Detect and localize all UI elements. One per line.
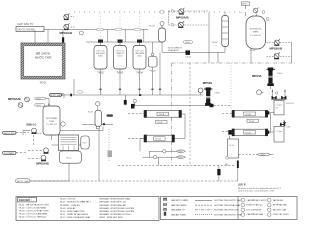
- svg-text:CL-5µ: CL-5µ: [229, 145, 235, 147]
- svg-text:MP07 : BƠM HÚT BÙN: MP07 : BƠM HÚT BÙN: [100, 216, 123, 219]
- svg-text:V = 300 LÍT: V = 300 LÍT: [46, 123, 58, 126]
- svg-text:TK-03 : CỘT LỌC HOẠT TÍNH: TK-03 : CỘT LỌC HOẠT TÍNH: [19, 210, 49, 213]
- svg-text:NƯỚC THẢI: NƯỚC THẢI: [17, 180, 29, 183]
- svg-text:MP03A/B: MP03A/B: [270, 46, 283, 50]
- svg-text:MP04S: MP04S: [203, 81, 213, 85]
- svg-text:NƯỚC SẠCH: NƯỚC SẠCH: [51, 94, 63, 97]
- svg-text:ĐƯỜNG ỐNG NƯỚC SẠCH: ĐƯỜNG ỐNG NƯỚC SẠCH: [215, 199, 244, 202]
- svg-text:TK-01: TK-01: [39, 81, 47, 85]
- svg-text:RO-A: RO-A: [246, 113, 252, 116]
- svg-text:VAN XẢ KHÍ: VAN XẢ KHÍ: [273, 199, 284, 202]
- svg-text:V = 500 LÍT: V = 500 LÍT: [250, 34, 262, 37]
- svg-text:TK-11: TK-11: [66, 158, 72, 160]
- svg-text:MP01A/B : BƠM TRUNG GIAN: MP01A/B : BƠM TRUNG GIAN: [100, 198, 131, 201]
- svg-text:MP02A/B: MP02A/B: [176, 15, 189, 19]
- svg-text:BÁO MỨC CẠN: BÁO MỨC CẠN: [273, 208, 287, 211]
- svg-text:MP01A/B: MP01A/B: [60, 31, 73, 35]
- svg-text:CL-1µm: CL-1µm: [276, 131, 283, 133]
- svg-text:TK-07: TK-07: [250, 50, 257, 52]
- svg-text:MP05A/B: MP05A/B: [36, 161, 49, 165]
- svg-text:DN-50: DN-50: [186, 57, 191, 59]
- svg-text:DN25: DN25: [178, 151, 183, 153]
- svg-text:DN50: DN50: [185, 42, 190, 44]
- svg-text:ĐỊNH LG: ĐỊNH LG: [27, 124, 37, 127]
- svg-text:MP02A/B : BƠM TIỆT LỌC: MP02A/B : BƠM TIỆT LỌC: [100, 201, 127, 204]
- svg-text:Hệ thống có thiết kế sẵn công: Hệ thống có thiết kế sẵn công bộ đề quá …: [238, 187, 282, 190]
- svg-text:RO-B: RO-B: [156, 139, 162, 141]
- svg-text:NaOCl 10%: NaOCl 10%: [4, 133, 15, 135]
- svg-text:CL-5µm: CL-5µm: [276, 105, 283, 107]
- svg-text:TK12: TK12: [82, 143, 86, 145]
- svg-text:TK-12 : BỒN CHỨA BÙN THẢI: TK-12 : BỒN CHỨA BÙN THẢI: [60, 216, 91, 219]
- svg-text:CẢM BIẾN MỰC NƯỚC: CẢM BIẾN MỰC NƯỚC: [247, 199, 268, 202]
- svg-text:TK-07 : BỒN NƯỚC MỀM HỆ 1: TK-07 : BỒN NƯỚC MỀM HỆ 1: [60, 201, 92, 204]
- svg-text:DN25: DN25: [178, 157, 183, 159]
- svg-text:NƯỚC MỀM TỪ: NƯỚC MỀM TỪ: [168, 47, 183, 50]
- svg-text:MP05A/B : BƠM TRUNG CHUYỂN: MP05A/B : BƠM TRUNG CHUYỂN: [100, 210, 135, 213]
- svg-text:TK-02 : CỘT LỌC ĐA TẦNG: TK-02 : CỘT LỌC ĐA TẦNG: [19, 206, 47, 209]
- svg-text:TK-04: TK-04: [136, 72, 143, 75]
- svg-text:NGĂN ALEX: NGĂN ALEX: [168, 49, 179, 52]
- svg-text:BỒN NƯỚC: BỒN NƯỚC: [250, 28, 263, 31]
- svg-text:DN50: DN50: [277, 73, 283, 75]
- svg-text:VAN AN TOÀN: VAN AN TOÀN: [171, 213, 186, 216]
- svg-text:MP04A/B : BƠM TRUNG CHUYỂN: MP04A/B : BƠM TRUNG CHUYỂN: [100, 207, 135, 210]
- svg-text:VAN MỘT CHIỀU: VAN MỘT CHIỀU: [171, 199, 189, 202]
- svg-text:TK-06: TK-06: [212, 42, 219, 44]
- svg-text:RO-B: RO-B: [246, 133, 252, 135]
- svg-text:TK-05 : CỘT LỌC TINH 5µm: TK-05 : CỘT LỌC TINH 5µm: [19, 216, 47, 219]
- svg-text:PL-01: PL-01: [149, 26, 156, 28]
- svg-text:TK-03: TK-03: [117, 72, 124, 75]
- svg-text:MP04A: MP04A: [252, 74, 263, 78]
- svg-text:LƯU Ý:: LƯU Ý:: [238, 184, 246, 187]
- svg-text:Tỷ lệ thu hồi nước của hệ thốn: Tỷ lệ thu hồi nước của hệ thống RO = 70%: [238, 190, 274, 193]
- svg-text:TK-08: TK-08: [157, 122, 163, 124]
- svg-text:CÔNG TẮC DÒNG: CÔNG TẮC DÒNG: [273, 213, 289, 216]
- svg-text:ỨNG: ỨNG: [49, 120, 54, 123]
- svg-text:CẢM BIẾN ĐỘ DẪN: CẢM BIẾN ĐỘ DẪN: [247, 213, 264, 216]
- svg-text:DN25: DN25: [261, 154, 266, 156]
- svg-text:ĐỒNG HỒ ÁP LỰC: ĐỒNG HỒ ÁP LỰC: [247, 204, 264, 207]
- svg-text:TK-08: TK-08: [249, 121, 255, 123]
- svg-text:DN25: DN25: [36, 98, 41, 100]
- svg-text:POLYMER: POLYMER: [4, 153, 14, 155]
- svg-text:TK-11 : THIẾT BỊ TÁCH BÙN: TK-11 : THIẾT BỊ TÁCH BÙN: [60, 213, 89, 216]
- svg-text:TK-08/RO : CỤM RO: TK-08/RO : CỤM RO: [60, 205, 81, 207]
- svg-text:DN25: DN25: [36, 105, 41, 107]
- svg-text:TK-10: TK-10: [36, 133, 43, 135]
- svg-text:DN2: DN2: [287, 127, 291, 129]
- svg-text:DN15 1/5: DN15 1/5: [286, 103, 294, 105]
- svg-text:ĐƯỜNG ỐNG HÓA CHẤT: ĐƯỜNG ỐNG HÓA CHẤT: [215, 204, 242, 207]
- svg-text:ĐƯỜNG ỐNG NƯỚC THẢI: ĐƯỜNG ỐNG NƯỚC THẢI: [215, 213, 243, 216]
- svg-text:BỒN PHẢN: BỒN PHẢN: [46, 117, 57, 120]
- svg-text:TK-05: TK-05: [150, 71, 157, 73]
- svg-text:TK-09 : BỒN ÁP: TK-09 : BỒN ÁP: [60, 207, 77, 210]
- svg-text:TK-09: TK-09: [88, 112, 94, 114]
- svg-text:TK-02: TK-02: [97, 72, 104, 75]
- svg-text:ÁP KẾ ĐẦU VÀO: ÁP KẾ ĐẦU VÀO: [273, 204, 288, 207]
- svg-text:DN15: DN15: [242, 4, 248, 6]
- svg-text:TK-06 : CỘT UF: TK-06 : CỘT UF: [60, 198, 77, 201]
- svg-text:TK-01 : BỂ CHỨA NƯỚC THÔ: TK-01 : BỂ CHỨA NƯỚC THÔ: [19, 203, 50, 206]
- svg-text:MP06A/B : BƠM ĐỊNH LƯỢNG: MP06A/B : BƠM ĐỊNH LƯỢNG: [100, 213, 131, 216]
- svg-text:NƯỚC THÔ: NƯỚC THÔ: [35, 55, 52, 60]
- svg-text:TK-10 : BỒN PHẢN ỨNG: TK-10 : BỒN PHẢN ỨNG: [60, 210, 85, 213]
- svg-text:TK-04 : CỘT LỌC LÀM MỀM: TK-04 : CỘT LỌC LÀM MỀM: [19, 213, 47, 216]
- svg-text:RO-A: RO-A: [159, 113, 165, 116]
- svg-text:MỀM: MỀM: [253, 31, 258, 34]
- svg-text:ĐƯỜNG ỐNG HỒI LƯU: ĐƯỜNG ỐNG HỒI LƯU: [215, 209, 239, 212]
- svg-text:MP03A/B : BƠM TĂNG ÁP: MP03A/B : BƠM TĂNG ÁP: [100, 204, 127, 207]
- svg-text:DN50: DN50: [215, 92, 221, 94]
- svg-text:VAN ĐIỆN TỪ: VAN ĐIỆN TỪ: [171, 209, 185, 212]
- svg-text:VAN TAY/ ĐIỆN: VAN TAY/ ĐIỆN: [171, 204, 187, 207]
- svg-text:LƯU LƯỢNG KẾ: LƯU LƯỢNG KẾ: [247, 208, 262, 211]
- svg-text:MP06A/B: MP06A/B: [8, 97, 21, 101]
